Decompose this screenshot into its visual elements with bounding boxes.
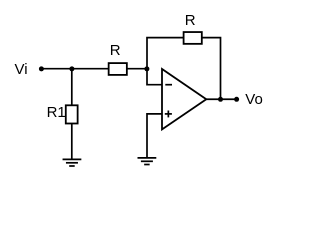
- resistor R1: [66, 105, 78, 123]
- ground GND1: [63, 158, 82, 160]
- svg-text:Vo: Vo: [245, 91, 263, 108]
- op-amp U1 triangle: [162, 69, 206, 129]
- op-amp plus sign: [165, 113, 172, 115]
- svg-text:R: R: [185, 12, 196, 29]
- ground GND2: [138, 157, 157, 159]
- wire output: [206, 98, 236, 100]
- svg-text:Vi: Vi: [15, 61, 28, 78]
- svg-text:R: R: [110, 42, 121, 59]
- node Vi terminal: [39, 66, 44, 71]
- node Vo terminal: [234, 97, 239, 102]
- wire noninverting input to ground: [147, 114, 162, 158]
- node feedback/output junction: [218, 97, 223, 102]
- wire feedback loop: [147, 38, 221, 100]
- wire step to inverting input: [147, 69, 162, 85]
- wire R1 branch vertical: [71, 69, 73, 160]
- op-amp minus sign: [165, 84, 172, 86]
- resistor R feedback: [184, 32, 202, 44]
- svg-text:R1: R1: [47, 104, 66, 121]
- wire Vi input to inverting node: [41, 68, 147, 70]
- node inverting junction: [144, 66, 149, 71]
- resistor R series: [109, 63, 127, 75]
- node junction input/R1: [69, 66, 74, 71]
